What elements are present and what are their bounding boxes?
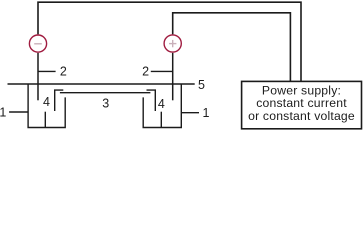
plate 5 (top cover line) (8, 83, 195, 85)
wire 2 (right lead into right electrode cup) (172, 53, 174, 101)
wire from positive meter to power supply (inner loop) (173, 13, 291, 82)
right electrode cup 1 (143, 84, 181, 128)
left bar end cap (55, 90, 64, 111)
svg-text:4: 4 (43, 95, 50, 109)
label 2 left leader (38, 70, 56, 72)
svg-text:or constant voltage: or constant voltage (248, 109, 355, 123)
meter M1 (negative terminal) (29, 35, 46, 52)
meter M2 (positive terminal) (164, 35, 181, 52)
svg-text:2: 2 (142, 65, 149, 79)
power supply box (242, 81, 362, 128)
left electrode cup 1 (28, 84, 65, 128)
svg-text:1: 1 (203, 106, 210, 120)
wire from negative meter to power supply (outer loop) (38, 2, 301, 81)
sample bar 3 (60, 92, 150, 94)
contact probe 4 (left leader) (44, 112, 46, 128)
wire 2 (left lead into left electrode cup) (37, 53, 39, 100)
svg-text:3: 3 (102, 96, 109, 110)
svg-text:4: 4 (158, 97, 165, 111)
svg-text:5: 5 (198, 78, 205, 92)
label 2 right leader (151, 70, 173, 72)
svg-text:2: 2 (60, 65, 67, 79)
contact probe 4 (right leader) (160, 112, 162, 128)
label 1 right leader (181, 112, 199, 114)
right bar end cap (147, 90, 156, 111)
svg-text:1: 1 (0, 106, 6, 120)
label 1 left leader (9, 111, 28, 113)
